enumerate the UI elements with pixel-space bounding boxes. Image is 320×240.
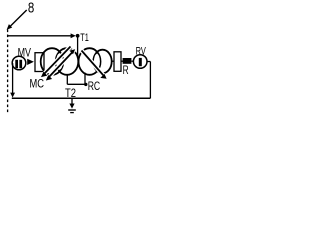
wire RC to stator box: [111, 60, 115, 62]
terminal T2 symbol below bus: [71, 99, 73, 104]
arrowhead into node T1: [71, 33, 76, 38]
top feeder wire: [8, 35, 73, 37]
resistor R (filled): [123, 58, 132, 64]
MC stator box: [35, 53, 44, 72]
fan MV (circle with two bars): [12, 56, 26, 70]
RC machine circles: [79, 48, 112, 75]
overhead contact line (dashed left border): [7, 30, 9, 114]
RC stator box: [114, 52, 121, 72]
node T1 dot: [76, 34, 80, 38]
svg-text:8: 8: [28, 0, 34, 17]
bottom bus wire: [12, 97, 151, 99]
fan RV (circle with bar): [133, 55, 147, 69]
right drop wire: [149, 62, 151, 99]
junction dot: [84, 83, 87, 86]
arrow MV to MC: [27, 59, 34, 65]
svg-text:MC: MC: [30, 76, 45, 90]
wire MV down to bus: [12, 63, 14, 94]
MC shaft double arrow: [44, 46, 75, 78]
MC machine circles: [41, 48, 79, 75]
arrow onto bus: [10, 93, 15, 98]
leader arrow from 8 to overhead line: [7, 10, 27, 30]
wire RV to right corner: [147, 61, 150, 63]
RC shaft arrow: [82, 51, 105, 77]
svg-text:RC: RC: [88, 79, 101, 93]
svg-text:R: R: [123, 65, 129, 77]
svg-text:T2: T2: [65, 88, 76, 100]
svg-text:T1: T1: [80, 32, 89, 44]
wire to resistor R: [121, 60, 124, 62]
wire T1 down to MC: [77, 37, 79, 57]
armature junction wires: [66, 74, 68, 84]
wire R to RV: [132, 60, 135, 62]
